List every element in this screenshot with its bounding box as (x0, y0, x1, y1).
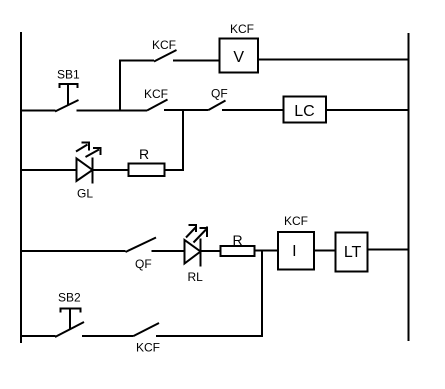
lamp LT box (336, 233, 368, 272)
svg-text:KCF: KCF (230, 22, 254, 36)
resistor R (row 4) (221, 246, 255, 256)
wire row2 right (326, 109, 409, 111)
svg-text:KCF: KCF (284, 214, 308, 228)
wire row2 a (77, 110, 148, 112)
wire row5 mid (82, 335, 134, 337)
wire row4 left (20, 250, 126, 252)
wire row4 c (255, 250, 279, 252)
pushbutton SB2 (55, 309, 84, 338)
wire row4 a (152, 250, 185, 252)
wire row2-row3 vertical link (182, 110, 184, 170)
contact KCF (row 5) (134, 323, 160, 336)
wire row4-row5 vertical link (261, 251, 263, 337)
wire row5 left (20, 335, 56, 337)
wire row2 b (164, 109, 209, 111)
svg-text:SB2: SB2 (58, 291, 81, 305)
svg-text:GL: GL (77, 187, 93, 201)
wire row3 left (20, 169, 77, 171)
svg-text:LC: LC (294, 103, 314, 120)
svg-text:R: R (233, 232, 243, 248)
svg-text:I: I (292, 243, 296, 260)
wire row1 left (119, 60, 154, 62)
svg-text:QF: QF (211, 87, 228, 101)
svg-text:RL: RL (188, 270, 204, 284)
contact KCF (row 2) (147, 100, 168, 111)
relay I box (278, 232, 314, 270)
svg-text:KCF: KCF (152, 38, 176, 52)
svg-text:KCF: KCF (136, 341, 160, 355)
svg-text:R: R (139, 146, 149, 162)
wire row1-row2 vertical link (119, 61, 121, 111)
pushbutton SB1 (55, 84, 79, 112)
LED GL (76, 143, 102, 184)
wire row3 right (165, 169, 185, 171)
wire row3 mid (93, 169, 129, 171)
contact KCF (row 1) (154, 50, 177, 62)
svg-text:SB1: SB1 (57, 68, 80, 82)
voltmeter U1 box V (220, 39, 259, 73)
contact QF (row 4) (126, 238, 157, 253)
right bus wire (408, 33, 410, 341)
wire row2 c (222, 109, 284, 111)
coil LC box (284, 97, 327, 123)
contact QF (row 2) (209, 101, 226, 111)
svg-text:KCF: KCF (144, 87, 168, 101)
svg-text:V: V (233, 49, 244, 66)
wire row5 right (156, 335, 263, 337)
LED RL (185, 224, 208, 267)
wire row4 d (314, 250, 336, 252)
resistor R (row 3) (129, 164, 165, 177)
wire row1 right (258, 59, 409, 61)
wire row4 b (201, 250, 221, 252)
wire row2 left (20, 110, 56, 112)
svg-text:QF: QF (135, 257, 152, 271)
wire row1 mid (173, 60, 220, 62)
svg-text:LT: LT (344, 244, 362, 261)
wire row4 right (368, 249, 409, 251)
left bus wire (20, 32, 22, 343)
